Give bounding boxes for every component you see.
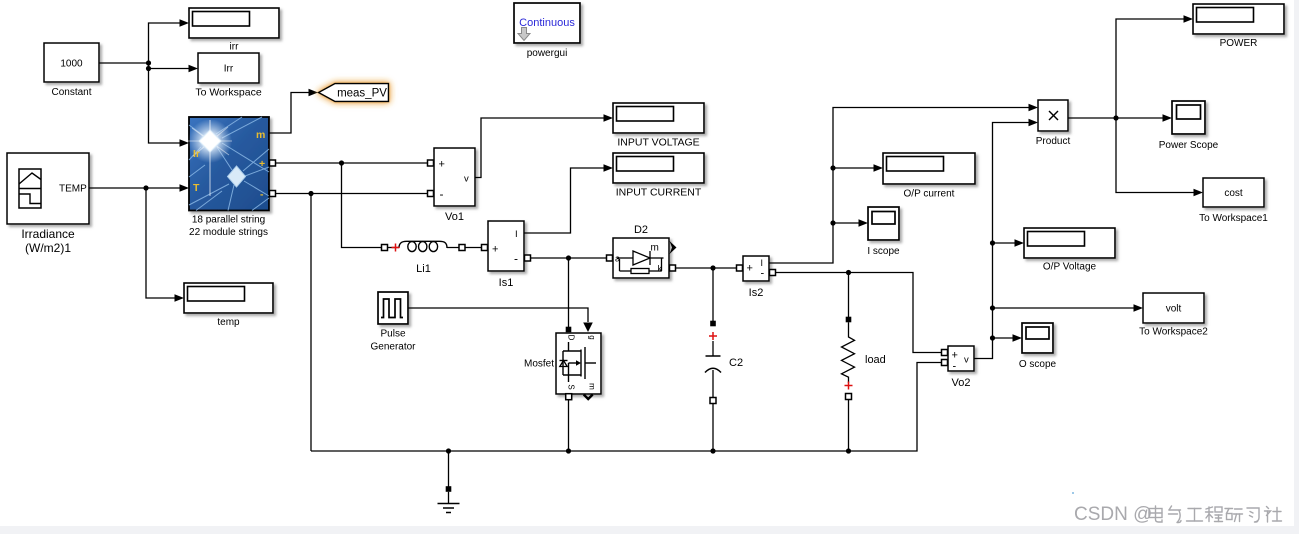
display O/P current bbox=[883, 153, 975, 184]
svg-text:(W/m2)1: (W/m2)1 bbox=[25, 241, 71, 255]
wire node down to Mosfet drain bbox=[568, 258, 570, 327]
svg-text:I: I bbox=[515, 229, 518, 240]
wire Is2 - output to Vo2 + input bbox=[769, 273, 943, 353]
svg-text:I scope: I scope bbox=[867, 246, 900, 257]
svg-text:m: m bbox=[588, 383, 597, 390]
voltage measurement Vo1 bbox=[434, 148, 475, 206]
node junction at (848.5,451) bbox=[846, 448, 851, 453]
svg-text:D2: D2 bbox=[634, 224, 648, 236]
svg-text:+: + bbox=[439, 159, 445, 171]
port square PV - output bbox=[270, 191, 276, 197]
svg-text:To Workspace1: To Workspace1 bbox=[1199, 213, 1268, 224]
svg-text:-: - bbox=[514, 252, 518, 266]
wire branch to volt to-workspace bbox=[993, 307, 1134, 309]
svg-text:Constant: Constant bbox=[51, 87, 91, 98]
svg-text:18 parallel string: 18 parallel string bbox=[192, 215, 265, 226]
svg-text:To Workspace: To Workspace bbox=[195, 87, 261, 99]
svg-text:Vo2: Vo2 bbox=[952, 377, 971, 389]
wire branch up to display irr bbox=[149, 23, 180, 63]
svg-text:Vo1: Vo1 bbox=[445, 211, 464, 223]
current measurement Is2 bbox=[743, 256, 769, 281]
resistor load bbox=[842, 317, 855, 451]
wire branch to I scope bbox=[833, 222, 859, 224]
PV array block 18 parallel string 22 module strings bbox=[188, 117, 269, 211]
bottom gray margin strip bbox=[0, 526, 1299, 534]
svg-text:temp: temp bbox=[217, 317, 240, 328]
wire Irradiance TEMP to PV array T input bbox=[89, 187, 180, 189]
svg-text:m: m bbox=[256, 129, 265, 141]
node junction at (1116,118) bbox=[1113, 115, 1118, 120]
wire Pulse Generator to Mosfet gate bbox=[408, 308, 588, 322]
node junction at (146,188) bbox=[143, 185, 148, 190]
wire branch down to PV array Ir input bbox=[149, 69, 180, 144]
svg-text:C2: C2 bbox=[729, 357, 743, 369]
display INPUT VOLTAGE bbox=[613, 103, 704, 133]
wire PV + output to Vo1 + input bbox=[269, 162, 434, 164]
node junction at (833,168) bbox=[830, 165, 835, 170]
svg-text:Irr: Irr bbox=[224, 64, 234, 75]
node junction at (311,193.5) bbox=[308, 191, 313, 196]
voltage measurement Vo2 bbox=[948, 346, 974, 373]
product block Product bbox=[1038, 100, 1068, 131]
display temp bbox=[184, 283, 273, 313]
wire branch to Irr to-workspace bbox=[149, 63, 189, 69]
svg-text:m: m bbox=[651, 243, 659, 254]
node junction at (148.5,68.5) bbox=[146, 66, 151, 71]
goto tag meas_PV bbox=[319, 84, 389, 102]
port square Vo1 + input bbox=[428, 160, 434, 166]
svg-text:22 module strings: 22 module strings bbox=[189, 227, 268, 238]
port square (solid) Mosfet drain bbox=[566, 327, 572, 333]
right gray margin strip bbox=[1294, 0, 1299, 534]
wire branch down to display temp bbox=[146, 188, 175, 298]
port square Is1 - output bbox=[525, 255, 531, 261]
display irr bbox=[189, 8, 279, 38]
svg-text:Is2: Is2 bbox=[749, 287, 764, 299]
svg-text:-: - bbox=[440, 187, 444, 201]
wire branch to display O/P current bbox=[833, 167, 874, 169]
scope Power Scope bbox=[1172, 101, 1205, 134]
port square Li1 input bbox=[382, 245, 388, 251]
source block Irradiance (W/m2)1 bbox=[7, 153, 89, 224]
wire Constant output bbox=[100, 62, 149, 64]
node junction at (341.5,163) bbox=[339, 160, 344, 165]
wire Vo1 v output to display INPUT VOLTAGE bbox=[475, 118, 604, 178]
wire node down to capacitor C2 bbox=[712, 268, 714, 321]
svg-text:Product: Product bbox=[1036, 136, 1071, 147]
constant block Constant (1000) bbox=[44, 43, 99, 82]
wire Vo2 v output up to Product input 2 bbox=[974, 123, 1029, 359]
to-workspace block Irr bbox=[198, 53, 259, 83]
svg-text:Mosfet: Mosfet bbox=[524, 359, 554, 370]
svg-text:To Workspace2: To Workspace2 bbox=[1139, 327, 1208, 338]
transistor Mosfet bbox=[556, 333, 601, 394]
wire node down to resistor load bbox=[848, 273, 850, 318]
wire bottom ground rail bbox=[311, 363, 943, 452]
node junction at (848.5,272.5) bbox=[846, 270, 851, 275]
svg-text:O scope: O scope bbox=[1019, 359, 1057, 370]
svg-text:Pulse: Pulse bbox=[380, 329, 405, 340]
node junction at (148.5,63) bbox=[146, 60, 151, 65]
svg-text:INPUT VOLTAGE: INPUT VOLTAGE bbox=[617, 137, 699, 149]
svg-text:INPUT CURRENT: INPUT CURRENT bbox=[616, 187, 702, 199]
svg-text:-: - bbox=[260, 189, 264, 201]
node junction at (568.5,451) bbox=[566, 448, 571, 453]
diode D2 bbox=[613, 238, 677, 278]
current measurement Is1 bbox=[488, 221, 524, 271]
powergui block bbox=[514, 3, 580, 43]
svg-text:cost: cost bbox=[1224, 188, 1243, 199]
wire branch to O scope bbox=[993, 337, 1013, 339]
svg-text:T: T bbox=[193, 182, 200, 194]
port square Vo2 - input bbox=[942, 360, 948, 366]
svg-text:Is1: Is1 bbox=[499, 277, 514, 289]
svg-text:O/P Voltage: O/P Voltage bbox=[1043, 262, 1097, 273]
wire branch up to display POWER bbox=[1116, 19, 1184, 118]
node junction at (992.5,338) bbox=[990, 335, 995, 340]
wire left ground rail vertical bbox=[310, 194, 312, 452]
inductor Li1 bbox=[387, 241, 486, 251]
wire Is2 I output up to Product input 1 bbox=[769, 108, 1029, 264]
display O/P Voltage bbox=[1024, 228, 1115, 258]
capacitor C2 bbox=[705, 321, 721, 451]
svg-text:POWER: POWER bbox=[1220, 38, 1258, 49]
svg-text:TEMP: TEMP bbox=[59, 184, 87, 195]
watermark CSDN @电气工程研习社 bbox=[1074, 504, 1282, 525]
red polarity + of Li1 bbox=[392, 244, 400, 252]
svg-text:meas_PV: meas_PV bbox=[337, 88, 387, 100]
svg-text:Continuous: Continuous bbox=[519, 17, 575, 29]
ground bbox=[438, 451, 460, 513]
wire Mosfet source to bottom rail bbox=[568, 400, 570, 451]
wire Is1 I output to display INPUT CURRENT bbox=[524, 168, 604, 233]
port square D2 a input bbox=[607, 255, 613, 261]
display INPUT CURRENT bbox=[613, 153, 704, 183]
scope I scope bbox=[868, 207, 899, 240]
chevron Mosfet m output (unconnected) bbox=[584, 395, 593, 400]
display POWER bbox=[1193, 4, 1284, 34]
port square Li1 output bbox=[459, 245, 465, 251]
wire Is1 - output to diode D2 anode bbox=[524, 257, 610, 259]
port square Is1 + input bbox=[482, 245, 488, 251]
pulse generator block bbox=[378, 292, 408, 324]
to-workspace block volt bbox=[1143, 293, 1204, 323]
svg-text:g: g bbox=[588, 335, 597, 339]
svg-text:I: I bbox=[761, 258, 764, 268]
port square PV + output bbox=[270, 160, 276, 166]
svg-text:powergui: powergui bbox=[527, 48, 568, 59]
wire Product output bbox=[1068, 117, 1163, 119]
svg-text:Irradiance: Irradiance bbox=[21, 227, 75, 241]
node junction at (833,223) bbox=[830, 220, 835, 225]
node junction at (992.5,243) bbox=[990, 240, 995, 245]
wire from + node down to inductor Li1 bbox=[342, 163, 385, 248]
port square (open) Mosfet source bottom bbox=[566, 394, 572, 400]
node junction at (713,268) bbox=[710, 265, 715, 270]
port square Is2 + input bbox=[737, 265, 743, 271]
wire PV - output to Vo1 - input bbox=[269, 193, 434, 195]
svg-text:v: v bbox=[964, 355, 969, 366]
wire D2 k output to Is2 + input bbox=[669, 267, 742, 269]
speck artifact bbox=[1072, 492, 1074, 494]
svg-text:Ir: Ir bbox=[193, 148, 200, 160]
svg-text:CSDN @: CSDN @ bbox=[1074, 504, 1152, 525]
wire PV m output to goto tag bbox=[269, 93, 309, 134]
svg-text:-: - bbox=[761, 268, 765, 280]
port square Vo1 - input bbox=[428, 191, 434, 197]
svg-text:+: + bbox=[259, 158, 265, 170]
node junction at (992.5,308) bbox=[990, 305, 995, 310]
svg-text:1000: 1000 bbox=[60, 59, 83, 70]
to-workspace block cost bbox=[1203, 178, 1264, 207]
node junction at (448.5,451) bbox=[446, 448, 451, 453]
node junction at (713,451) bbox=[710, 448, 715, 453]
svg-text:Generator: Generator bbox=[370, 342, 416, 353]
node junction at (568.5,258) bbox=[566, 255, 571, 260]
svg-text:v: v bbox=[464, 174, 469, 185]
svg-text:+: + bbox=[492, 244, 498, 256]
svg-text:O/P current: O/P current bbox=[904, 189, 955, 200]
wire branch to display O/P Voltage bbox=[993, 242, 1015, 244]
svg-text:D: D bbox=[567, 335, 576, 341]
wire branch down to cost to-workspace bbox=[1116, 118, 1194, 193]
svg-text:Li1: Li1 bbox=[416, 263, 431, 275]
svg-text:irr: irr bbox=[230, 42, 240, 53]
port square Is2 - output bbox=[770, 270, 776, 276]
svg-text:S: S bbox=[567, 384, 576, 389]
svg-text:volt: volt bbox=[1166, 304, 1182, 315]
svg-text:Power Scope: Power Scope bbox=[1159, 140, 1219, 151]
scope O scope bbox=[1022, 323, 1053, 353]
svg-text:load: load bbox=[865, 354, 886, 366]
port square Vo2 + input bbox=[942, 350, 948, 356]
svg-text:+: + bbox=[747, 263, 753, 275]
port square D2 k output bbox=[670, 265, 676, 271]
svg-text:-: - bbox=[953, 361, 957, 373]
